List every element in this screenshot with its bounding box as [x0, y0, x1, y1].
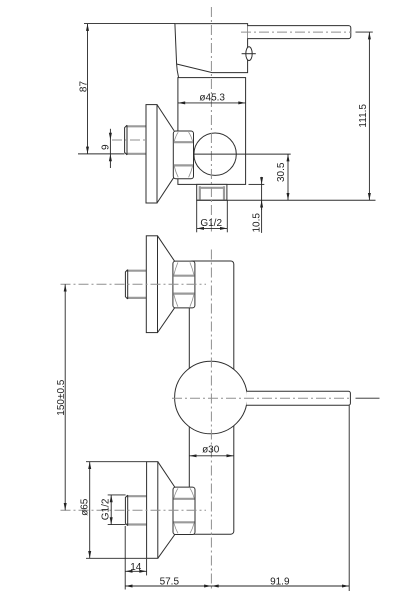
outlet inner thread left: [199, 186, 201, 199]
svg-text:ø45.3: ø45.3: [199, 92, 225, 103]
dimension 30.5: [287, 154, 289, 200]
nut band lower: [174, 164, 193, 166]
fitting axis line left: [78, 153, 125, 155]
dimension 9: [109, 129, 111, 140]
pipe bottom thread line: [126, 153, 146, 155]
dimension 14: [124, 526, 126, 590]
svg-text:87: 87: [78, 81, 89, 93]
top fitting: wall pipe: [125, 270, 146, 299]
pipe centerline: [112, 139, 146, 141]
lever centerline: [241, 31, 351, 33]
svg-text:150±0.5: 150±0.5: [56, 379, 67, 416]
nut chamfer arcs (side view): [174, 132, 192, 177]
dimension ø30: [189, 455, 234, 457]
valve body (side view, ø45.3 housing): [178, 78, 246, 185]
nut chamfer arcs (bottom fitting): [174, 488, 194, 533]
body tube ø30: [189, 261, 234, 534]
ball joint: [194, 133, 236, 175]
lever handle (side view): [248, 26, 351, 39]
dimension 57.5: [125, 585, 211, 587]
dimension 87: [87, 24, 89, 154]
fitting axis line through ball: [194, 153, 291, 155]
svg-text:91.9: 91.9: [270, 576, 290, 587]
dimension ø65: [86, 461, 146, 463]
svg-text:30.5: 30.5: [276, 162, 287, 182]
dimension 91.9: [211, 585, 349, 587]
outlet inner thread top: [200, 187, 224, 189]
dimension 111.5: [368, 32, 370, 200]
top fitting: cone slants: [158, 236, 175, 261]
handle pivot screw ellipse: [246, 47, 252, 61]
outlet inner thread right: [223, 186, 225, 199]
escutcheon cone top slant: [157, 105, 174, 131]
main vertical centerline: [210, 7, 212, 232]
svg-text:G1/2: G1/2: [200, 218, 222, 229]
cap / head cover: [175, 24, 248, 78]
nut band upper: [174, 141, 193, 143]
svg-text:ø65: ø65: [80, 498, 91, 516]
lever end extension line: [348, 405, 350, 591]
main vertical centerline: [210, 250, 212, 592]
hex nut (side view): [173, 131, 193, 179]
lever handle (front view): [246, 391, 350, 405]
nut chamfer arcs (top fitting): [174, 262, 194, 306]
svg-text:14: 14: [130, 562, 142, 573]
pipe end cap: [125, 125, 127, 155]
svg-text:57.5: 57.5: [160, 576, 180, 587]
bottom fitting: flange: [147, 462, 158, 559]
dimension ø45.3: [178, 102, 246, 104]
dimension 10.5: [261, 177, 263, 185]
bottom fitting: hex nut: [173, 487, 195, 534]
dimension 150±0.5: [64, 284, 66, 510]
handle horizontal centerline: [172, 397, 351, 399]
valve housing circle: [175, 361, 248, 434]
dimension G1/2 inlet: [108, 494, 126, 496]
pivot crosshair: [242, 53, 256, 55]
svg-text:9: 9: [100, 144, 111, 150]
top fitting axis: [61, 283, 207, 285]
svg-text:G1/2: G1/2: [100, 498, 111, 520]
wall pipe (G1/2 inlet, side view): [125, 125, 147, 155]
bottom plane line: [197, 199, 376, 201]
escutcheon cone bottom slant: [157, 177, 174, 203]
escutcheon flange (side): [146, 105, 157, 203]
outlet (G1/2, bottom): [197, 184, 227, 200]
bottom fitting: wall pipe: [125, 495, 146, 525]
dimension G1/2 outlet: [196, 200, 198, 232]
svg-text:10.5: 10.5: [252, 213, 263, 233]
bottom fitting: cone slants: [158, 462, 175, 487]
bottom fitting axis: [61, 509, 207, 511]
pipe top thread line: [126, 125, 146, 127]
svg-text:111.5: 111.5: [358, 104, 369, 128]
svg-text:ø30: ø30: [202, 445, 220, 456]
top fitting: flange: [146, 236, 157, 333]
top fitting: hex nut: [173, 261, 195, 308]
